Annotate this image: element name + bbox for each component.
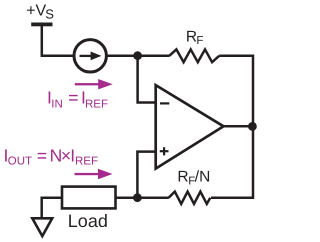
node A junction dot [133, 51, 142, 60]
svg-text:=: = [37, 146, 47, 166]
current source I1 [74, 40, 106, 72]
wire current source to node A [106, 55, 137, 58]
node C junction dot [133, 193, 142, 202]
svg-text:=: = [68, 87, 78, 107]
label +VS [26, 2, 54, 21]
op-amp plus sign [160, 147, 169, 155]
svg-text:F: F [196, 35, 203, 47]
wire node A to RF [138, 55, 170, 58]
op-amp minus sign [160, 102, 169, 104]
wire load to ground [42, 198, 62, 219]
label IOUT = N×IREF [4, 146, 99, 168]
svg-text:Load: Load [68, 211, 108, 231]
label RF/N [177, 168, 210, 187]
svg-text:OUT: OUT [8, 156, 32, 168]
wire noninverting input to node C [137, 152, 155, 198]
svg-text:IN: IN [51, 98, 63, 110]
svg-text:R: R [177, 168, 188, 185]
wire +VS to current source [42, 26, 75, 56]
arrow IIN [75, 79, 113, 89]
svg-text:REF: REF [75, 156, 98, 168]
wire node C to RFN [137, 197, 168, 200]
resistor RF/N [169, 192, 211, 204]
svg-text:S: S [45, 7, 54, 22]
wire op-amp output to node B [224, 125, 254, 128]
label IIN = IREF [47, 87, 108, 110]
load box [62, 187, 116, 209]
arrow IOUT [75, 169, 113, 179]
node B output junction dot [248, 122, 257, 131]
supply +VS bar [31, 23, 52, 27]
svg-text:/N: /N [195, 168, 211, 185]
wire node C to load box [116, 196, 138, 199]
svg-text:+V: +V [26, 2, 46, 19]
label RF [186, 28, 204, 47]
op-amp U1 [156, 85, 224, 169]
svg-text:REF: REF [85, 98, 108, 110]
wire node A down to inverting input [138, 56, 156, 103]
resistor RF [169, 49, 219, 62]
ground [32, 218, 52, 236]
wire RF to right rail down to bottom rail [211, 56, 253, 198]
